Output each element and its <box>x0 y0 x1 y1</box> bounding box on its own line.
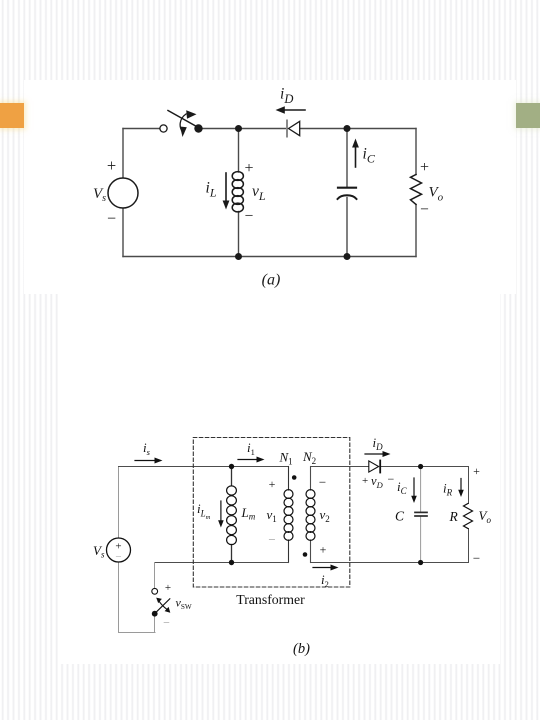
label iL <box>206 180 217 200</box>
label v2 <box>320 507 330 524</box>
label R <box>449 509 459 524</box>
current arrow iC <box>352 139 359 168</box>
switch motion arrow <box>180 110 197 137</box>
label i2 <box>321 572 329 589</box>
wire: primary winding lower stub <box>288 540 290 563</box>
label + of v2 <box>320 543 327 557</box>
label - of v2 <box>319 475 326 490</box>
svg-text:(a): (a) <box>262 272 281 289</box>
label is <box>143 440 151 457</box>
svg-text:iC: iC <box>363 146 376 166</box>
label Transformer <box>236 592 305 607</box>
orange accent square <box>0 103 24 128</box>
switch open terminal <box>160 125 167 132</box>
wire: primary winding upper stub <box>288 467 290 491</box>
wire: bottom rail primary <box>155 562 289 564</box>
label vL <box>252 183 266 203</box>
svg-text:+: + <box>362 475 368 487</box>
label Vs <box>93 543 105 560</box>
svg-text:+: + <box>473 464 480 478</box>
wire: inductor branch upper <box>238 129 240 173</box>
wire: switch branch lower <box>154 617 156 633</box>
label iC <box>363 146 376 166</box>
inductor Lm magnetizing <box>227 486 237 545</box>
label Lm <box>241 505 256 522</box>
label + of vSW <box>165 582 171 594</box>
wire: magnetizing branch lower stub <box>231 545 233 563</box>
current arrow i2 <box>313 565 339 571</box>
svg-text:iR: iR <box>443 481 453 498</box>
wire: top rail primary <box>119 466 289 468</box>
svg-text:−: − <box>319 475 326 490</box>
wire: secondary winding upper stub <box>310 467 312 491</box>
voltage source Vs <box>107 538 131 563</box>
svg-text:iLm: iLm <box>197 501 211 521</box>
wire: source Vs bottom <box>118 562 120 633</box>
wire: bottom-left return <box>119 632 156 634</box>
switch blade <box>168 111 198 128</box>
svg-text:Lm: Lm <box>241 505 256 522</box>
switch SW open terminal <box>152 588 158 594</box>
svg-text:−: − <box>107 211 116 228</box>
switch closed terminal dot <box>194 124 202 132</box>
wire: capacitor branch lower <box>420 517 422 563</box>
label - of v1 <box>268 532 275 547</box>
caption (b) <box>293 641 310 657</box>
svg-text:Vs: Vs <box>93 186 106 204</box>
primary winding N1 <box>284 490 293 541</box>
svg-text:iL: iL <box>206 180 217 200</box>
wire: load branch upper <box>468 467 470 504</box>
svg-text:−: − <box>420 201 429 218</box>
switch SW blade <box>156 599 170 613</box>
white content panel B (bottom figure) <box>58 294 500 664</box>
svg-text:+: + <box>107 156 116 175</box>
svg-text:Transformer: Transformer <box>236 592 305 607</box>
current arrow iR <box>458 479 464 498</box>
node: inductor bottom junction <box>235 253 242 260</box>
svg-text:iD: iD <box>280 86 293 107</box>
wire: top-left from source to switch <box>123 128 160 130</box>
label iLm <box>197 501 211 521</box>
wire: diode to top-right corner <box>300 128 417 130</box>
svg-text:v2: v2 <box>320 507 330 524</box>
label C <box>395 509 405 524</box>
svg-text:+: + <box>244 160 253 177</box>
label + of vL <box>244 160 253 177</box>
svg-text:N1: N1 <box>279 450 293 467</box>
svg-text:v1: v1 <box>267 507 277 524</box>
current arrow iLm <box>218 501 224 528</box>
wire: left branch upper <box>122 129 124 179</box>
label Vs <box>93 186 106 204</box>
wire: inductor branch lower <box>238 212 240 257</box>
svg-text:iD: iD <box>373 435 384 452</box>
voltage source Vs <box>108 178 138 208</box>
white content panel A (top figure) <box>24 80 516 294</box>
green accent square <box>516 103 540 128</box>
label vSW <box>176 596 192 612</box>
svg-text:−: − <box>115 551 121 563</box>
svg-text:+: + <box>420 159 429 176</box>
wire: bottom rail secondary <box>311 562 469 564</box>
secondary winding N2 <box>306 490 315 541</box>
wire: left branch lower <box>122 208 124 257</box>
node: Lm bottom junction <box>229 560 234 565</box>
label v1 <box>267 507 277 524</box>
resistor R load <box>411 175 422 205</box>
current arrow iD <box>276 106 306 113</box>
node: capacitor top junction <box>344 125 351 132</box>
wire: capacitor branch upper <box>346 129 348 188</box>
transformer dashed box <box>193 438 349 588</box>
label - of Vo <box>473 551 480 566</box>
label iR <box>443 481 453 498</box>
wire: top rail secondary to diode <box>311 466 369 468</box>
wire: bottom rail <box>123 256 416 258</box>
switch SW motion arrow <box>156 598 170 613</box>
wire: resistor branch upper <box>415 129 417 175</box>
resistor R <box>464 504 473 529</box>
inductor L <box>232 172 243 212</box>
svg-text:vL: vL <box>252 183 266 203</box>
svg-text:i2: i2 <box>321 572 329 589</box>
svg-text:+: + <box>165 582 171 594</box>
svg-text:vSW: vSW <box>176 596 192 612</box>
node: inductor top junction <box>235 125 242 132</box>
svg-text:−: − <box>245 208 254 225</box>
svg-text:Vo: Vo <box>479 508 492 525</box>
label + of Vo <box>473 464 480 478</box>
current arrow iL <box>223 173 230 210</box>
svg-text:−: − <box>388 472 395 486</box>
label + of Vo <box>420 159 429 176</box>
label iD <box>280 86 293 107</box>
label i1 <box>247 440 255 457</box>
label - of Vo <box>420 201 429 218</box>
label + vD - <box>362 472 395 490</box>
node: output bottom junction <box>418 560 423 565</box>
svg-text:−: − <box>473 551 480 566</box>
wire: load branch lower <box>468 529 470 563</box>
diode D1 <box>287 121 300 137</box>
svg-text:−: − <box>163 616 170 630</box>
current arrow iD <box>365 451 391 457</box>
wire: magnetizing branch upper stub <box>231 467 233 486</box>
caption (a) <box>262 272 281 289</box>
svg-text:+: + <box>269 477 276 491</box>
capacitor C <box>338 188 357 199</box>
wire: secondary winding lower stub <box>310 540 312 563</box>
switch SW closed terminal dot <box>152 611 158 617</box>
svg-text:N2: N2 <box>302 449 316 466</box>
current arrow iC <box>411 478 417 503</box>
polarity dot N2 <box>303 552 308 557</box>
svg-text:i1: i1 <box>247 440 255 457</box>
label + of Vs <box>107 156 116 175</box>
capacitor C <box>415 512 427 516</box>
svg-text:+: + <box>320 543 327 557</box>
svg-text:C: C <box>395 509 405 524</box>
label N2 <box>302 449 316 466</box>
wire: source Vs to top-left corner <box>118 467 120 539</box>
wire: resistor branch lower <box>415 205 417 257</box>
label - of Vs <box>107 211 116 228</box>
node: capacitor bottom junction <box>344 253 351 260</box>
wire: switch branch upper <box>154 563 156 589</box>
polarity dot N1 <box>292 475 297 480</box>
node: Lm top junction <box>229 464 234 469</box>
svg-text:R: R <box>449 509 459 524</box>
svg-text:Vo: Vo <box>429 185 444 204</box>
label + of v1 <box>269 477 276 491</box>
label - of vL <box>245 208 254 225</box>
wire: diode to output node <box>381 466 469 468</box>
label N1 <box>279 450 293 467</box>
wire: capacitor branch lower <box>346 198 348 257</box>
node: output top junction <box>418 464 423 469</box>
svg-text:−: − <box>268 532 275 547</box>
svg-text:(b): (b) <box>293 641 310 657</box>
label iC <box>397 479 408 496</box>
diode D <box>369 461 380 473</box>
label - of vSW <box>163 616 170 630</box>
svg-text:iC: iC <box>397 479 408 496</box>
svg-text:Vs: Vs <box>93 543 105 560</box>
label Vo <box>479 508 492 525</box>
label Vo <box>429 185 444 204</box>
current arrow is <box>135 458 163 464</box>
wire: switch dot to diode <box>202 128 287 130</box>
wire: capacitor branch upper <box>420 467 422 512</box>
svg-text:vD: vD <box>371 474 384 490</box>
svg-text:is: is <box>143 440 151 457</box>
current arrow i1 <box>238 457 265 463</box>
label iD <box>373 435 384 452</box>
